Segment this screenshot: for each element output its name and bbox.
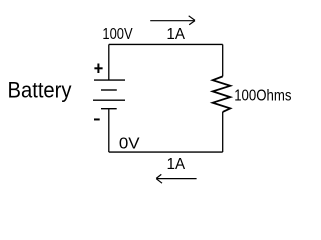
svg-text:100V: 100V bbox=[102, 26, 133, 43]
battery B1 plate short bbox=[101, 89, 117, 91]
current arrow bottom (1A, leftward) bbox=[156, 174, 196, 183]
battery B1 plate long top bbox=[94, 79, 125, 81]
battery polarity plus bbox=[94, 64, 102, 74]
wire top (node 100V) bbox=[109, 43, 223, 45]
svg-text:100Ohms: 100Ohms bbox=[234, 87, 292, 104]
wire left lower bbox=[108, 109, 110, 152]
svg-text:0V: 0V bbox=[119, 135, 140, 152]
wire bottom (node 0V) bbox=[109, 151, 223, 153]
wire right lower bbox=[222, 112, 224, 152]
battery polarity minus bbox=[94, 118, 100, 120]
svg-text:Battery: Battery bbox=[8, 77, 72, 102]
battery B1 plate short bottom bbox=[101, 108, 117, 110]
current arrow top (1A, rightward) bbox=[150, 16, 195, 25]
resistor R1 bbox=[213, 76, 231, 112]
svg-text:1A: 1A bbox=[166, 26, 185, 43]
svg-text:1A: 1A bbox=[167, 156, 186, 173]
battery B1 plate long bbox=[93, 99, 125, 101]
wire right upper bbox=[222, 44, 224, 76]
wire left upper bbox=[108, 44, 110, 80]
